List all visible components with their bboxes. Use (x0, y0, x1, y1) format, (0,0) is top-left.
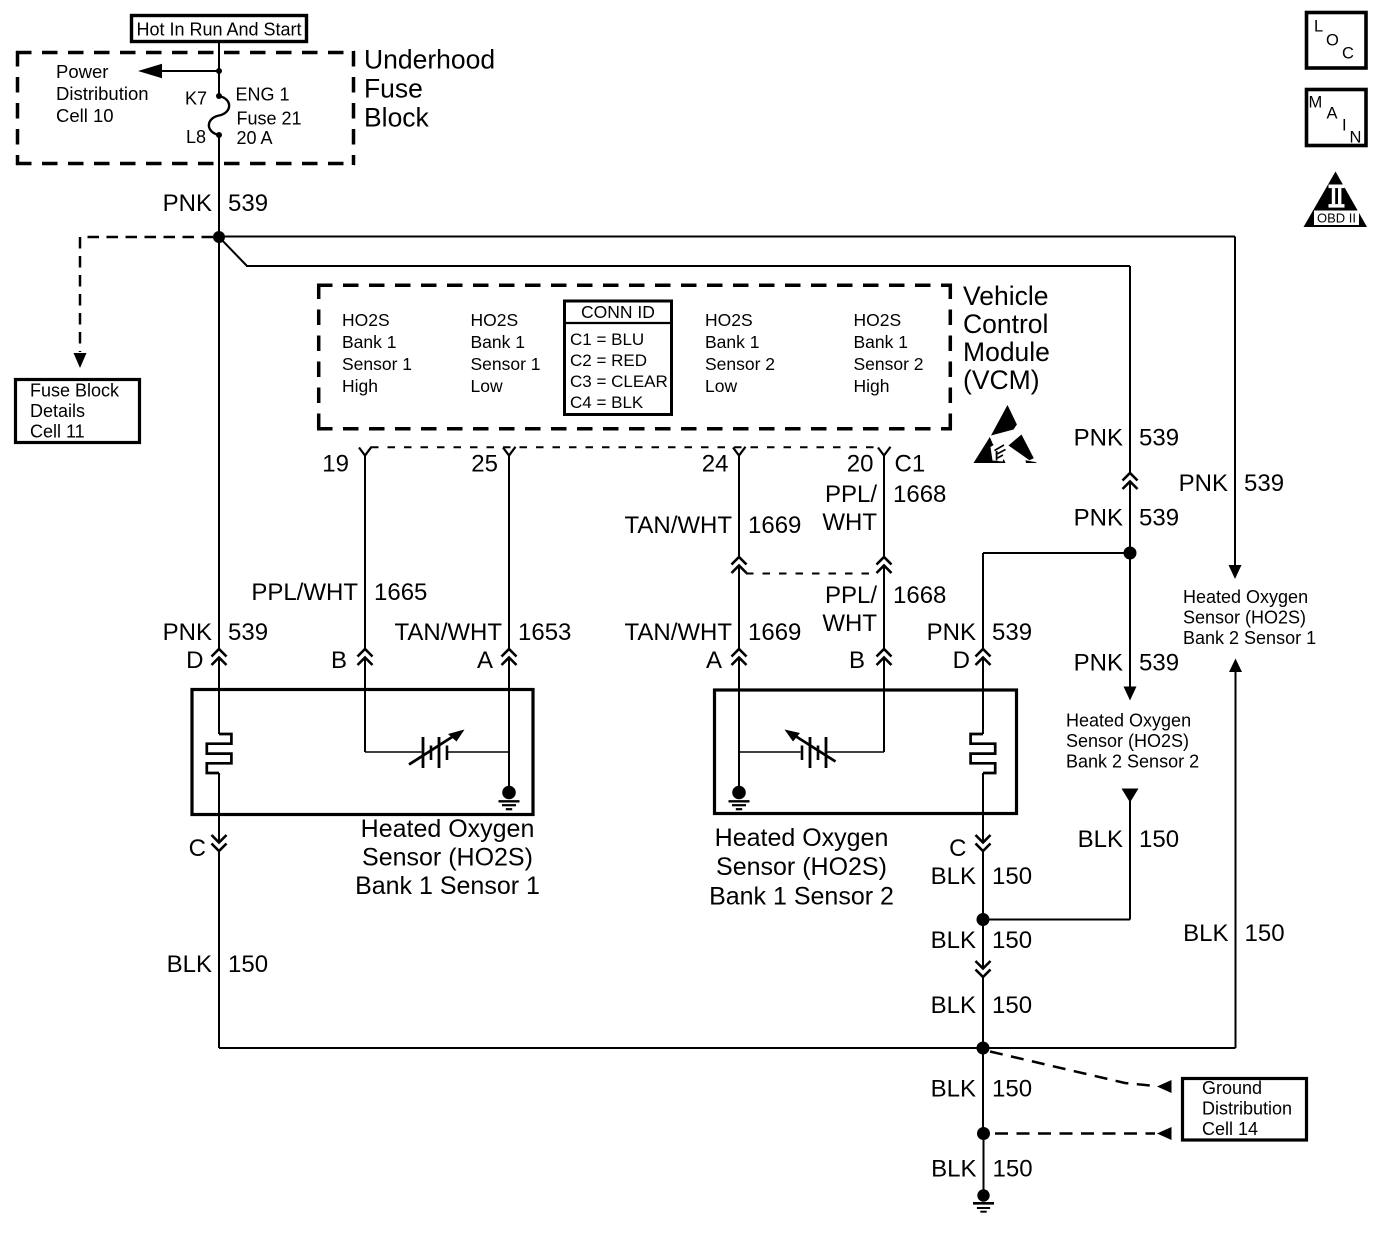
connector pair A at sensor 2 (706, 647, 747, 674)
locator symbol LOC (1307, 13, 1367, 69)
caption: Heated Oxygen Sensor (HO2S) Bank 2 Sensor 2 (1066, 711, 1199, 772)
svg-text:High: High (854, 376, 890, 396)
wire PPL/WHT 1668 pin20 to inline connector (883, 456, 885, 559)
wire PNK 539 VCM rail drop (1129, 266, 1131, 474)
svg-text:Cell 10: Cell 10 (56, 105, 114, 126)
svg-text:Distribution: Distribution (1202, 1099, 1292, 1119)
svg-text:Bank 2 Sensor 1: Bank 2 Sensor 1 (1183, 628, 1316, 648)
svg-text:Module: Module (963, 337, 1050, 367)
label: ENG 1 Fuse 21 20 A (236, 85, 302, 149)
inline connector link line (746, 573, 877, 575)
svg-text:C: C (949, 835, 966, 862)
label PPL/WHT 1668 (lower) (822, 582, 946, 637)
svg-text:(VCM): (VCM) (963, 365, 1040, 395)
svg-text:Bank 1: Bank 1 (342, 332, 396, 352)
svg-text:TAN/WHT: TAN/WHT (394, 619, 502, 646)
wire PNK 539 branch to sensor2 pin D (983, 553, 1130, 650)
svg-text:Cell 14: Cell 14 (1202, 1119, 1258, 1139)
svg-text:N: N (1350, 129, 1362, 147)
arrow to Power Distribution Cell 10 (138, 64, 219, 78)
wire: top rail to right edge (PNK 539) (219, 236, 1235, 238)
svg-text:Fuse: Fuse (364, 74, 423, 104)
svg-text:Bank 1 Sensor 2: Bank 1 Sensor 2 (709, 883, 894, 911)
svg-text:C4 = BLK: C4 = BLK (570, 393, 644, 412)
svg-text:HO2S: HO2S (342, 310, 390, 330)
svg-text:539: 539 (992, 619, 1032, 646)
wire: BLK 150 ground rail (219, 1047, 1236, 1049)
sensor2 sensing element (variable cell) (739, 658, 884, 768)
svg-text:PNK: PNK (927, 619, 976, 646)
svg-text:PNK: PNK (163, 190, 212, 217)
svg-text:Sensor (HO2S): Sensor (HO2S) (716, 853, 887, 881)
svg-text:539: 539 (228, 619, 268, 646)
wire BLK 150 to ground G103 (983, 1134, 985, 1191)
fuse ENG 1 Fuse 21 20 A (209, 93, 229, 138)
VCM pin 19 (322, 447, 371, 478)
svg-text:150: 150 (1139, 826, 1179, 853)
caption: Heated Oxygen Sensor (HO2S) Bank 1 Sensor 2 (709, 824, 894, 911)
svg-text:PNK: PNK (1179, 470, 1228, 497)
svg-text:C1 = BLU: C1 = BLU (570, 330, 644, 349)
dashed reference wire to Fuse Block Details (74, 237, 214, 368)
svg-text:Fuse 21: Fuse 21 (237, 109, 302, 129)
svg-text:24: 24 (702, 451, 729, 478)
Underhood Fuse Block dashed boundary (16, 51, 355, 165)
svg-text:M: M (1309, 94, 1323, 112)
svg-text:HO2S: HO2S (854, 310, 902, 330)
OBD II symbol (1304, 172, 1368, 228)
svg-text:K7: K7 (185, 89, 207, 109)
svg-text:Low: Low (471, 376, 503, 396)
connector pair D at sensor 1 (186, 647, 226, 674)
svg-text:1668: 1668 (893, 582, 946, 609)
inline connector on TAN/WHT (732, 557, 747, 573)
svg-text:C: C (189, 835, 206, 862)
wire PPL/WHT 1665 pin19 to sensor1 pin B (364, 456, 366, 651)
svg-text:C1: C1 (895, 451, 926, 478)
dashed reference to Ground Distribution (lower) (995, 1127, 1172, 1140)
svg-text:Vehicle: Vehicle (963, 281, 1048, 311)
VCM pin function: HO2S Bank 1 Sensor 2 High (854, 310, 924, 396)
svg-text:BLK: BLK (931, 992, 976, 1019)
connector pair C at sensor 2 (949, 835, 990, 862)
connector pair D at sensor 2 (953, 647, 991, 674)
wire BLK 150 splice to inline connector (982, 920, 984, 969)
svg-text:D: D (186, 647, 203, 674)
svg-text:PNK: PNK (1074, 425, 1123, 452)
svg-text:C: C (1342, 45, 1354, 63)
svg-text:High: High (342, 376, 378, 396)
wire PPL/WHT 1668 to sensor2 pin B (883, 566, 885, 650)
svg-text:19: 19 (322, 451, 349, 478)
connector ID legend box (565, 301, 672, 415)
svg-text:PPL/WHT: PPL/WHT (251, 579, 358, 606)
svg-text:PPL/: PPL/ (825, 582, 877, 609)
svg-text:150: 150 (992, 863, 1032, 890)
connector pair C at sensor 1 (189, 835, 227, 862)
svg-text:Hot In Run And Start: Hot In Run And Start (136, 20, 301, 40)
svg-text:150: 150 (992, 927, 1032, 954)
svg-text:Bank 1: Bank 1 (471, 332, 525, 352)
svg-text:1668: 1668 (893, 481, 946, 508)
svg-text:WHT: WHT (822, 509, 877, 536)
connector pair on PNK rail (1123, 473, 1138, 489)
label PPL/WHT 1668 (upper) (822, 481, 946, 536)
svg-text:Bank 2 Sensor 2: Bank 2 Sensor 2 (1066, 752, 1199, 772)
sensor1 heater element (207, 658, 232, 842)
svg-text:L: L (1314, 18, 1323, 36)
svg-text:1665: 1665 (374, 579, 427, 606)
wire: feed from Hot In Run And Start to fuse (218, 42, 220, 97)
wire: second rail to VCM feed (219, 237, 1130, 266)
svg-text:Sensor 1: Sensor 1 (471, 354, 541, 374)
node: splice at G103 tap (977, 1127, 990, 1140)
svg-text:20: 20 (847, 451, 874, 478)
svg-text:WHT: WHT (822, 610, 877, 637)
connector pair B at sensor 1 (331, 647, 373, 674)
svg-text:D: D (953, 647, 970, 674)
connector pair B at sensor 2 (849, 647, 892, 674)
wire PNK 539 right rail off-page to HO2S B2S1 (1229, 237, 1242, 580)
label: Power Distribution Cell 10 (56, 61, 149, 126)
svg-text:I: I (1342, 117, 1347, 135)
svg-text:Sensor (HO2S): Sensor (HO2S) (1066, 731, 1189, 751)
label: Vehicle Control Module (VCM) (963, 281, 1050, 395)
svg-text:1669: 1669 (748, 619, 801, 646)
Heated Oxygen Sensor Bank 1 Sensor 2 box (715, 690, 1017, 814)
reference box: Ground Distribution Cell 14 (1183, 1078, 1307, 1140)
node: BLK splice S108 (977, 913, 990, 926)
svg-text:A: A (1327, 105, 1338, 123)
svg-text:539: 539 (228, 190, 268, 217)
wire PNK 539 from fuse to splice (218, 135, 220, 237)
svg-text:Sensor 2: Sensor 2 (854, 354, 924, 374)
wire TAN/WHT 1669 to sensor2 pin A (738, 566, 740, 650)
caption: Heated Oxygen Sensor (HO2S) Bank 1 Sensor 1 (355, 815, 540, 900)
svg-text:Heated Oxygen: Heated Oxygen (361, 815, 535, 843)
wire BLK 150 from sensor1 pin C to ground rail (218, 851, 220, 1049)
svg-text:PPL/: PPL/ (825, 481, 877, 508)
svg-text:539: 539 (1139, 505, 1179, 532)
svg-text:539: 539 (1139, 650, 1179, 677)
locator symbol MAIN (1307, 90, 1367, 147)
svg-text:150: 150 (1245, 920, 1285, 947)
svg-text:Power: Power (56, 61, 108, 82)
caption: Heated Oxygen Sensor (HO2S) Bank 2 Sensor 1 (1183, 587, 1316, 648)
svg-text:BLK: BLK (931, 1156, 976, 1183)
svg-text:Bank 1: Bank 1 (705, 332, 759, 352)
svg-text:BLK: BLK (931, 1076, 976, 1103)
ESD sensitivity symbol (974, 405, 1037, 463)
svg-text:HO2S: HO2S (471, 310, 519, 330)
inline connector on BLK 150 (976, 961, 991, 977)
svg-text:C2 = RED: C2 = RED (570, 351, 647, 370)
wire PNK 539 off-page to HO2S B2S2 (1124, 553, 1137, 701)
dashed reference to Ground Distribution (upper) (990, 1052, 1172, 1094)
svg-text:Details: Details (30, 401, 85, 421)
svg-text:150: 150 (228, 951, 268, 978)
VCM pin 20 (847, 447, 891, 478)
svg-text:CONN ID: CONN ID (581, 302, 655, 322)
svg-text:539: 539 (1139, 425, 1179, 452)
svg-text:A: A (706, 647, 722, 674)
svg-text:BLK: BLK (1183, 920, 1228, 947)
svg-text:Control: Control (963, 309, 1048, 339)
svg-text:PNK: PNK (1074, 650, 1123, 677)
wire BLK 150 from HO2S B2S2 (983, 789, 1139, 920)
node: ground rail junction G (977, 1042, 990, 1055)
svg-text:150: 150 (992, 992, 1032, 1019)
reference box: Fuse Block Details Cell 11 (16, 380, 140, 443)
svg-text:25: 25 (471, 451, 498, 478)
Heated Oxygen Sensor Bank 1 Sensor 1 box (192, 690, 533, 815)
ground G103 (973, 1189, 994, 1211)
wire BLK 150 sensor2 pin C to splice (982, 851, 984, 920)
svg-text:Sensor (HO2S): Sensor (HO2S) (362, 844, 533, 872)
VCM connector C1 line (371, 446, 878, 448)
svg-text:ENG 1: ENG 1 (236, 85, 290, 105)
svg-text:Heated Oxygen: Heated Oxygen (1183, 587, 1308, 607)
svg-text:Heated Oxygen: Heated Oxygen (715, 824, 889, 852)
wire PNK 539 main drop to HO2S B1S1 pin D (218, 237, 220, 650)
wire BLK 150 to ground rail junction (982, 977, 984, 1049)
sensor1 internal ground (499, 658, 520, 809)
svg-text:BLK: BLK (931, 863, 976, 890)
wire TAN/WHT 1669 pin24 to inline connector (738, 456, 740, 559)
svg-text:A: A (477, 647, 493, 674)
svg-text:Sensor 2: Sensor 2 (705, 354, 775, 374)
power rail label box "Hot In Run And Start" (132, 16, 307, 42)
sensor2 heater element (971, 658, 996, 842)
svg-text:BLK: BLK (167, 951, 212, 978)
svg-text:L8: L8 (186, 127, 206, 147)
wire TAN/WHT 1653 pin25 to sensor1 pin A (508, 456, 510, 651)
svg-text:O: O (1326, 32, 1339, 50)
label: Underhood Fuse Block (364, 45, 495, 133)
svg-text:Sensor (HO2S): Sensor (HO2S) (1183, 608, 1306, 628)
svg-text:PNK: PNK (163, 619, 212, 646)
svg-text:PNK: PNK (1074, 505, 1123, 532)
svg-text:B: B (331, 647, 347, 674)
svg-text:1669: 1669 (748, 512, 801, 539)
svg-text:TAN/WHT: TAN/WHT (624, 512, 732, 539)
VCM pin 24 (702, 447, 746, 478)
svg-text:Cell 11: Cell 11 (30, 422, 85, 442)
node: PNK 539 branch to sensor 2 (1124, 547, 1137, 560)
svg-text:OBD II: OBD II (1317, 211, 1356, 226)
svg-text:B: B (849, 647, 865, 674)
svg-text:Bank 1 Sensor 1: Bank 1 Sensor 1 (355, 872, 540, 900)
svg-text:Block: Block (364, 103, 430, 133)
svg-text:150: 150 (993, 1156, 1033, 1183)
node: tap junction at feed (216, 68, 222, 74)
svg-text:C3 = CLEAR: C3 = CLEAR (570, 372, 668, 391)
svg-text:Underhood: Underhood (364, 45, 495, 75)
svg-text:TAN/WHT: TAN/WHT (624, 619, 732, 646)
svg-text:539: 539 (1244, 470, 1284, 497)
sensor1 sensing element (variable cell) (365, 658, 509, 768)
VCM pin function: HO2S Bank 1 Sensor 2 Low (705, 310, 775, 396)
svg-text:Heated Oxygen: Heated Oxygen (1066, 711, 1191, 731)
connector pair A at sensor 1 (477, 647, 517, 674)
VCM pin function: HO2S Bank 1 Sensor 1 Low (471, 310, 541, 396)
Vehicle Control Module dashed boundary (317, 284, 952, 431)
VCM pin 25 (471, 447, 515, 478)
inline connector on PPL/WHT (877, 557, 892, 573)
svg-text:BLK: BLK (931, 927, 976, 954)
svg-text:Bank 1: Bank 1 (854, 332, 908, 352)
wire PNK 539 to branch node (1129, 482, 1131, 553)
svg-text:HO2S: HO2S (705, 310, 753, 330)
svg-text:150: 150 (992, 1076, 1032, 1103)
svg-text:1653: 1653 (518, 619, 571, 646)
svg-text:BLK: BLK (1078, 826, 1123, 853)
node: PNK 539 splice S117 (213, 231, 225, 243)
svg-text:Ground: Ground (1202, 1078, 1262, 1098)
svg-text:Distribution: Distribution (56, 83, 149, 104)
svg-text:20 A: 20 A (237, 128, 273, 148)
wire BLK 150 rail to G103 splice (982, 1048, 984, 1134)
sensor2 internal ground (729, 658, 750, 809)
VCM pin function: HO2S Bank 1 Sensor 1 High (342, 310, 412, 396)
wire BLK 150 from HO2S B2S1 to ground rail (1229, 659, 1242, 1049)
svg-text:Fuse Block: Fuse Block (30, 381, 120, 401)
svg-text:Low: Low (705, 376, 737, 396)
svg-text:Sensor 1: Sensor 1 (342, 354, 412, 374)
